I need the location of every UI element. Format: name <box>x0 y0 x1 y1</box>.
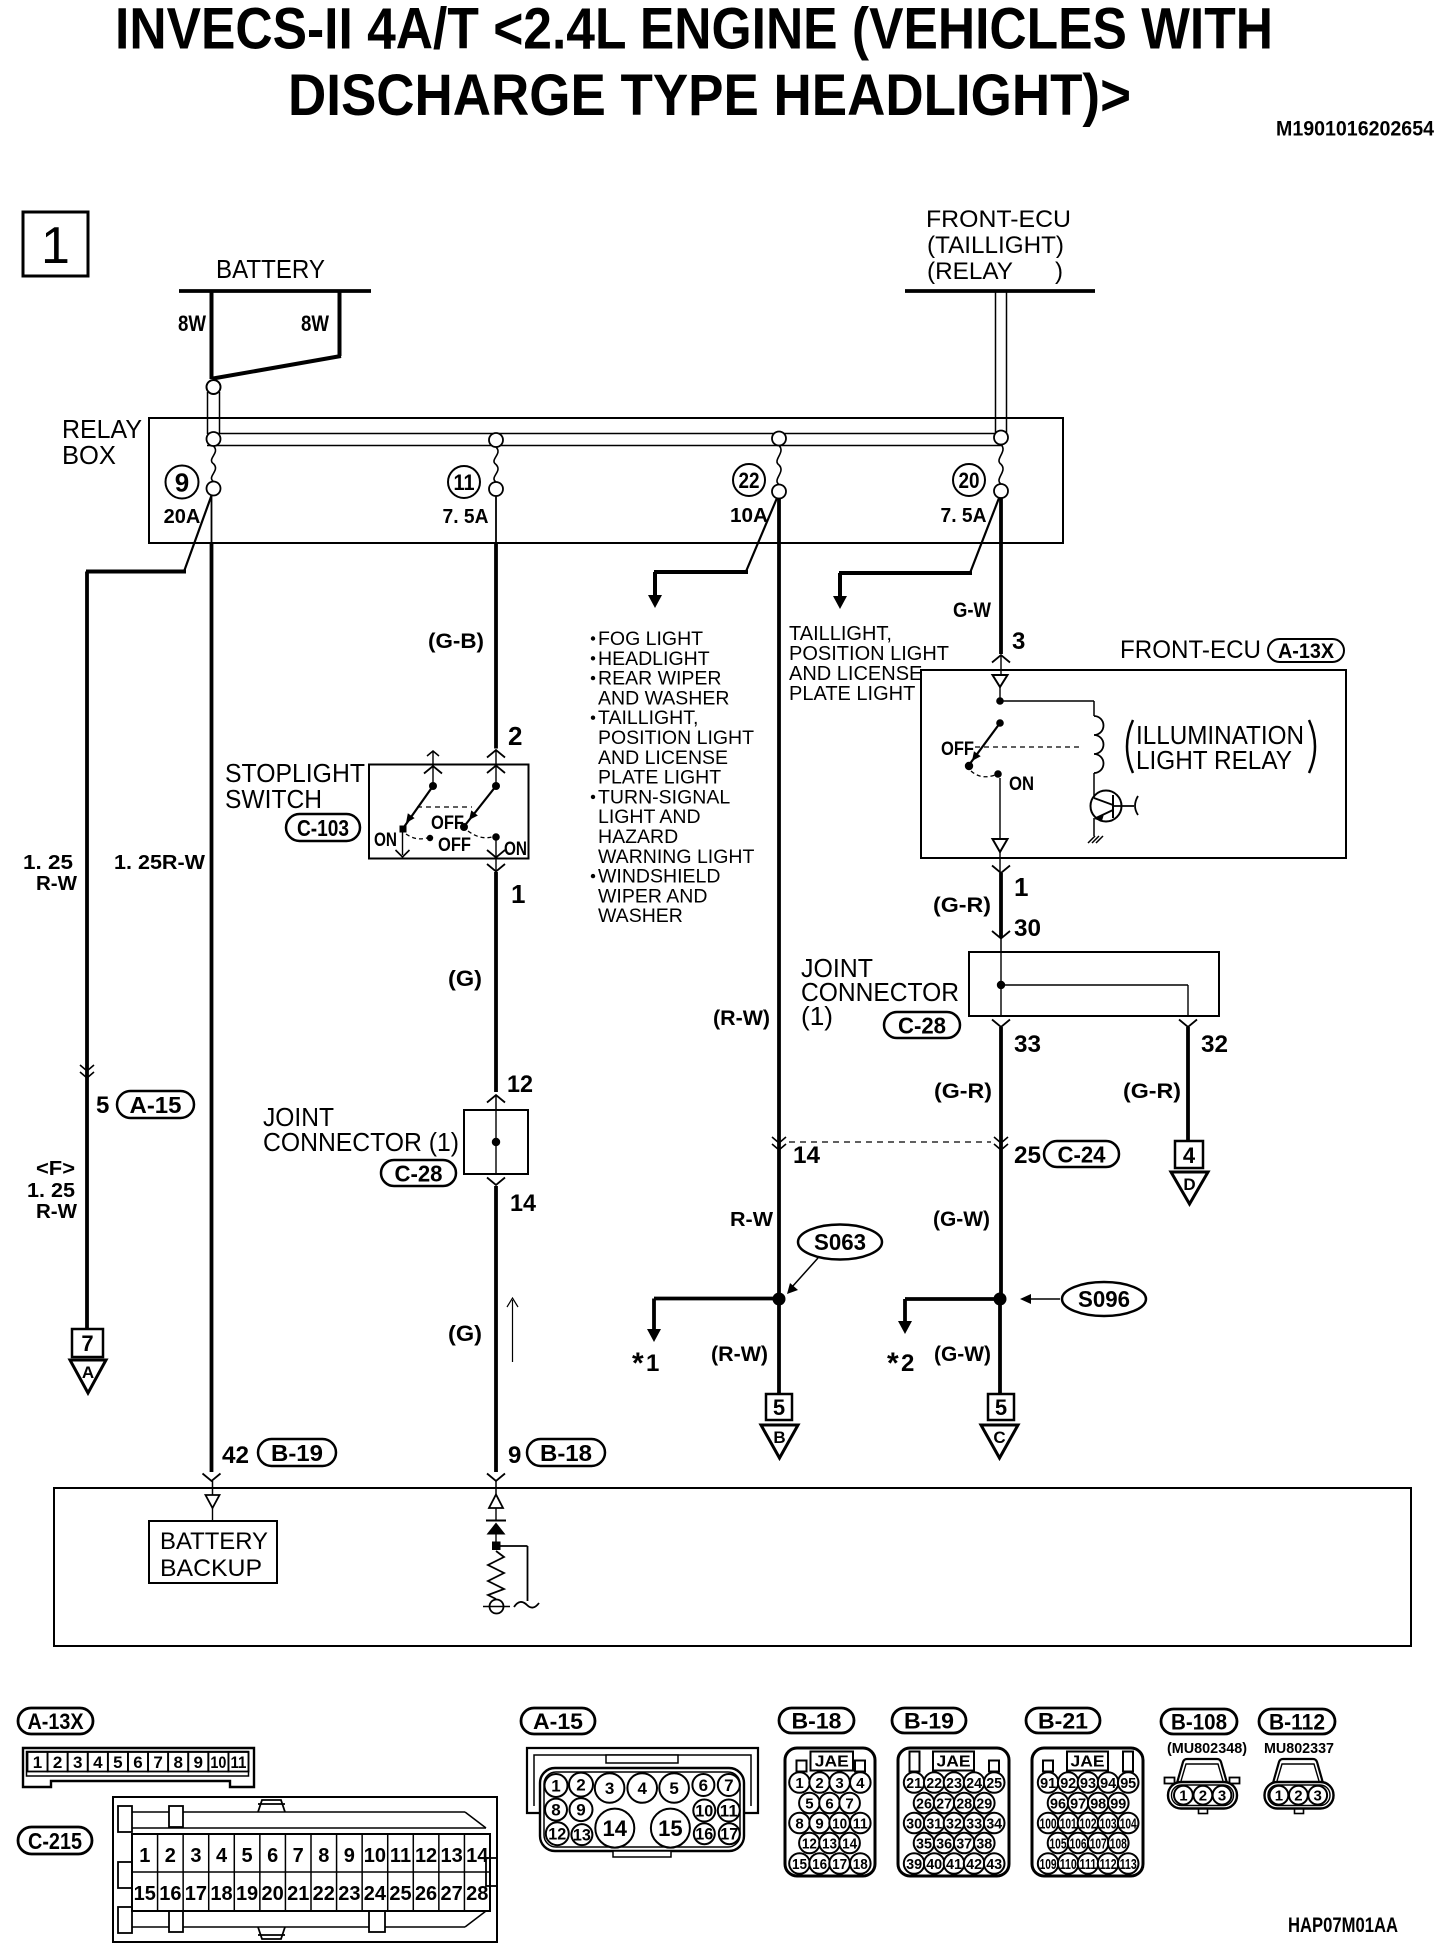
svg-text:9: 9 <box>576 1801 585 1820</box>
svg-text:42: 42 <box>222 1442 249 1469</box>
svg-text:41: 41 <box>946 1856 962 1873</box>
svg-text:8: 8 <box>173 1753 182 1772</box>
svg-text:33: 33 <box>1014 1031 1041 1058</box>
svg-text:14: 14 <box>603 1816 628 1841</box>
svg-text:B-18: B-18 <box>792 1708 842 1733</box>
svg-text:36: 36 <box>936 1835 952 1852</box>
svg-text:1: 1 <box>551 1776 560 1795</box>
svg-text:1: 1 <box>511 879 525 909</box>
svg-text:9: 9 <box>175 467 189 497</box>
svg-text:1: 1 <box>795 1775 803 1792</box>
svg-text:108: 108 <box>1110 1835 1127 1852</box>
svg-text:109: 109 <box>1040 1856 1057 1873</box>
svg-text:REAR WIPER: REAR WIPER <box>598 668 722 690</box>
svg-text:SWITCH: SWITCH <box>225 784 322 814</box>
svg-text:20A: 20A <box>164 506 201 528</box>
svg-text:WINDSHIELD: WINDSHIELD <box>598 866 720 888</box>
svg-text:1: 1 <box>1179 1788 1187 1805</box>
svg-text:40: 40 <box>926 1856 942 1873</box>
svg-text:AND WASHER: AND WASHER <box>598 687 729 709</box>
svg-text:10: 10 <box>364 1845 386 1867</box>
svg-text:29: 29 <box>976 1795 992 1812</box>
svg-text:21: 21 <box>287 1883 309 1905</box>
svg-text:1. 25R-W: 1. 25R-W <box>114 852 205 874</box>
svg-text:33: 33 <box>966 1815 982 1832</box>
svg-text:2: 2 <box>901 1350 914 1377</box>
svg-text:11: 11 <box>720 1801 738 1820</box>
svg-text:A-15: A-15 <box>130 1092 182 1118</box>
svg-text:3: 3 <box>835 1775 843 1792</box>
svg-text:10: 10 <box>695 1801 713 1820</box>
svg-text:FOG LIGHT: FOG LIGHT <box>598 628 703 650</box>
svg-text:8W: 8W <box>178 311 206 336</box>
svg-text:17: 17 <box>832 1856 847 1873</box>
svg-text:11: 11 <box>454 470 475 495</box>
svg-text:B-112: B-112 <box>1269 1709 1325 1734</box>
svg-text:2: 2 <box>1199 1788 1207 1805</box>
svg-text:(G): (G) <box>448 1321 482 1346</box>
svg-text:(G-R): (G-R) <box>934 1080 992 1103</box>
svg-text:TAILLIGHT,: TAILLIGHT, <box>598 707 698 729</box>
svg-text:25: 25 <box>389 1883 411 1905</box>
svg-text:2: 2 <box>1294 1788 1302 1805</box>
svg-text:3: 3 <box>1012 628 1025 655</box>
svg-text:FRONT-ECU: FRONT-ECU <box>1120 636 1261 664</box>
svg-text:20: 20 <box>959 468 980 493</box>
svg-text:(G-R): (G-R) <box>933 894 991 917</box>
svg-text:5: 5 <box>669 1779 678 1798</box>
svg-text:7: 7 <box>845 1795 853 1812</box>
svg-text:19: 19 <box>236 1883 258 1905</box>
svg-text:27: 27 <box>441 1883 463 1905</box>
svg-text:21: 21 <box>906 1775 922 1792</box>
svg-text:(MU802348): (MU802348) <box>1167 1740 1247 1757</box>
svg-text:S063: S063 <box>814 1229 866 1255</box>
svg-text:25: 25 <box>986 1775 1002 1792</box>
svg-text:(TAILLIGHT): (TAILLIGHT) <box>927 232 1064 259</box>
svg-text:MU802337: MU802337 <box>1264 1740 1334 1757</box>
svg-text:PLATE LIGHT: PLATE LIGHT <box>789 683 915 705</box>
svg-text:3: 3 <box>605 1779 614 1798</box>
svg-text:95: 95 <box>1120 1775 1136 1792</box>
svg-text:12: 12 <box>802 1835 817 1852</box>
svg-text:PLATE LIGHT: PLATE LIGHT <box>598 767 721 789</box>
svg-text:BATTERY: BATTERY <box>160 1528 268 1555</box>
svg-text:WIPER AND: WIPER AND <box>598 885 707 907</box>
svg-text:5: 5 <box>113 1753 122 1772</box>
svg-text:C-103: C-103 <box>297 815 349 841</box>
svg-text:7: 7 <box>293 1845 304 1867</box>
svg-text:5: 5 <box>773 1395 785 1420</box>
svg-text:1: 1 <box>1014 872 1028 902</box>
svg-text:99: 99 <box>1110 1795 1126 1812</box>
svg-text:R-W: R-W <box>36 1201 77 1223</box>
svg-text:42: 42 <box>966 1856 982 1873</box>
svg-text:4: 4 <box>856 1775 865 1792</box>
svg-text:7. 5A: 7. 5A <box>443 506 489 528</box>
svg-text:B-18: B-18 <box>540 1440 592 1466</box>
svg-text:28: 28 <box>956 1795 972 1812</box>
svg-text:CONNECTOR (1): CONNECTOR (1) <box>263 1127 459 1157</box>
svg-text:111: 111 <box>1080 1856 1097 1873</box>
svg-text:POSITION LIGHT: POSITION LIGHT <box>789 643 949 665</box>
svg-text:8W: 8W <box>301 311 329 336</box>
svg-text:(G): (G) <box>448 966 482 991</box>
svg-text:6: 6 <box>699 1776 708 1795</box>
svg-text:S096: S096 <box>1078 1286 1130 1312</box>
svg-text:22: 22 <box>313 1883 335 1905</box>
svg-text:1. 25: 1. 25 <box>27 1180 75 1202</box>
svg-text:R-W: R-W <box>36 873 77 895</box>
svg-text:16: 16 <box>159 1883 181 1905</box>
svg-text:13: 13 <box>822 1835 837 1852</box>
svg-text:2: 2 <box>576 1776 585 1795</box>
svg-text:(G-W): (G-W) <box>933 1208 990 1231</box>
svg-text:5: 5 <box>242 1845 253 1867</box>
svg-text:(G-R): (G-R) <box>1123 1080 1181 1103</box>
svg-text:HEADLIGHT: HEADLIGHT <box>598 648 710 670</box>
svg-text:A: A <box>82 1363 94 1382</box>
svg-text:C: C <box>993 1428 1005 1447</box>
svg-text:22: 22 <box>739 468 760 493</box>
svg-text:INVECS-II 4A/T <2.4L ENGINE (V: INVECS-II 4A/T <2.4L ENGINE (VEHICLES WI… <box>115 0 1273 62</box>
svg-text:23: 23 <box>338 1883 360 1905</box>
svg-text:11: 11 <box>853 1815 868 1832</box>
svg-text:6: 6 <box>133 1753 142 1772</box>
svg-text:5: 5 <box>96 1092 109 1119</box>
svg-text:2: 2 <box>815 1775 823 1792</box>
svg-text:ON: ON <box>1009 774 1034 795</box>
svg-text:3: 3 <box>190 1845 201 1867</box>
svg-text:9: 9 <box>815 1815 823 1832</box>
svg-text:AND LICENSE: AND LICENSE <box>789 663 922 685</box>
svg-text:2: 2 <box>165 1845 176 1867</box>
svg-text:14: 14 <box>510 1190 537 1217</box>
svg-text:9: 9 <box>194 1753 203 1772</box>
svg-text:7: 7 <box>81 1331 93 1356</box>
svg-text:15: 15 <box>658 1816 682 1841</box>
svg-text:22: 22 <box>926 1775 942 1792</box>
svg-text:1. 25: 1. 25 <box>23 852 73 874</box>
svg-text:96: 96 <box>1050 1795 1066 1812</box>
svg-text:30: 30 <box>906 1815 922 1832</box>
svg-text:LIGHT AND: LIGHT AND <box>598 806 701 828</box>
svg-text:12: 12 <box>507 1071 533 1098</box>
svg-text:M1901016202654: M1901016202654 <box>1276 118 1434 141</box>
svg-text:6: 6 <box>267 1845 278 1867</box>
svg-text:FRONT-ECU: FRONT-ECU <box>926 206 1071 233</box>
svg-text:105: 105 <box>1050 1835 1067 1852</box>
svg-text:8: 8 <box>318 1845 329 1867</box>
svg-text:9: 9 <box>508 1442 521 1469</box>
svg-text:6: 6 <box>825 1795 833 1812</box>
svg-text:5: 5 <box>805 1795 813 1812</box>
svg-text:39: 39 <box>906 1856 922 1873</box>
svg-text:B-108: B-108 <box>1171 1709 1227 1734</box>
svg-text:3: 3 <box>1218 1788 1226 1805</box>
svg-text:1: 1 <box>646 1350 659 1377</box>
svg-text:27: 27 <box>936 1795 952 1812</box>
svg-text:9: 9 <box>344 1845 355 1867</box>
svg-text:93: 93 <box>1080 1775 1096 1792</box>
svg-text:10A: 10A <box>730 505 768 527</box>
svg-text:25: 25 <box>1014 1142 1041 1169</box>
svg-text:3: 3 <box>1314 1788 1322 1805</box>
svg-text:98: 98 <box>1090 1795 1106 1812</box>
svg-text:104: 104 <box>1120 1815 1137 1832</box>
svg-text:(G-B): (G-B) <box>428 630 484 653</box>
svg-text:16: 16 <box>812 1856 827 1873</box>
svg-text:ON: ON <box>504 839 527 860</box>
svg-text:97: 97 <box>1070 1795 1086 1812</box>
svg-text:10: 10 <box>832 1815 847 1832</box>
svg-text:14: 14 <box>466 1845 489 1867</box>
svg-text:100: 100 <box>1040 1815 1057 1832</box>
svg-text:LIGHT RELAY: LIGHT RELAY <box>1136 745 1292 775</box>
svg-text:C-28: C-28 <box>395 1160 443 1186</box>
svg-text:12: 12 <box>415 1845 437 1867</box>
svg-text:16: 16 <box>695 1825 713 1844</box>
svg-text:38: 38 <box>976 1835 992 1852</box>
svg-text:17: 17 <box>185 1883 207 1905</box>
svg-text:17: 17 <box>720 1825 738 1844</box>
svg-text:TAILLIGHT,: TAILLIGHT, <box>789 623 892 645</box>
svg-text:103: 103 <box>1100 1815 1117 1832</box>
svg-text:1: 1 <box>33 1753 42 1772</box>
svg-text:23: 23 <box>946 1775 962 1792</box>
svg-text:28: 28 <box>466 1883 488 1905</box>
svg-text:1: 1 <box>41 217 70 275</box>
svg-text:32: 32 <box>946 1815 962 1832</box>
svg-text:ON: ON <box>374 830 397 851</box>
svg-text:BOX: BOX <box>62 440 116 470</box>
svg-text:7: 7 <box>724 1776 733 1795</box>
svg-text:BACKUP: BACKUP <box>160 1555 262 1582</box>
svg-text:43: 43 <box>986 1856 1002 1873</box>
svg-text:14: 14 <box>793 1142 821 1169</box>
svg-text:(R-W): (R-W) <box>711 1343 768 1366</box>
svg-text:A-15: A-15 <box>533 1709 583 1734</box>
svg-text:4: 4 <box>216 1845 228 1867</box>
svg-text:110: 110 <box>1060 1856 1077 1873</box>
svg-text:B-21: B-21 <box>1038 1708 1088 1733</box>
svg-text:AND LICENSE: AND LICENSE <box>598 747 728 769</box>
svg-text:A-13X: A-13X <box>1278 640 1334 663</box>
svg-text:WARNING LIGHT: WARNING LIGHT <box>598 846 754 868</box>
svg-text:10: 10 <box>210 1753 226 1772</box>
svg-text:102: 102 <box>1080 1815 1097 1832</box>
svg-text:TURN-SIGNAL: TURN-SIGNAL <box>598 786 730 808</box>
svg-text:11: 11 <box>230 1753 246 1772</box>
svg-text:12: 12 <box>548 1825 566 1844</box>
svg-text:101: 101 <box>1060 1815 1077 1832</box>
svg-text:OFF: OFF <box>431 813 464 834</box>
svg-text:4: 4 <box>637 1779 647 1798</box>
svg-text:JAE: JAE <box>1071 1754 1105 1771</box>
svg-text:POSITION LIGHT: POSITION LIGHT <box>598 727 754 749</box>
svg-text:18: 18 <box>210 1883 232 1905</box>
svg-text:18: 18 <box>853 1856 868 1873</box>
svg-text:7. 5A: 7. 5A <box>941 505 987 527</box>
svg-text:113: 113 <box>1120 1856 1137 1873</box>
svg-text:(G-W): (G-W) <box>934 1343 991 1366</box>
svg-text:WASHER: WASHER <box>598 905 683 927</box>
svg-text:R-W: R-W <box>730 1209 773 1231</box>
svg-text:C-28: C-28 <box>898 1012 946 1038</box>
svg-text:<F>: <F> <box>36 1158 75 1180</box>
svg-text:24: 24 <box>966 1775 983 1792</box>
svg-text:): ) <box>1055 258 1063 285</box>
svg-text:106: 106 <box>1070 1835 1087 1852</box>
svg-text:C-24: C-24 <box>1058 1141 1106 1167</box>
svg-text:3: 3 <box>73 1753 82 1772</box>
svg-text:15: 15 <box>134 1883 156 1905</box>
svg-text:13: 13 <box>441 1845 463 1867</box>
svg-text:(RELAY: (RELAY <box>927 258 1013 285</box>
svg-text:*: * <box>887 1347 899 1380</box>
svg-text:8: 8 <box>795 1815 803 1832</box>
svg-text:20: 20 <box>262 1883 284 1905</box>
svg-text:7: 7 <box>153 1753 162 1772</box>
svg-text:26: 26 <box>415 1883 437 1905</box>
svg-text:32: 32 <box>1201 1031 1228 1058</box>
svg-text:112: 112 <box>1100 1856 1117 1873</box>
svg-text:JAE: JAE <box>815 1754 849 1771</box>
svg-text:(1): (1) <box>801 1001 833 1031</box>
svg-text:37: 37 <box>956 1835 972 1852</box>
svg-text:15: 15 <box>792 1856 807 1873</box>
svg-text:31: 31 <box>926 1815 942 1832</box>
svg-text:92: 92 <box>1060 1775 1076 1792</box>
svg-text:DISCHARGE TYPE HEADLIGHT)>: DISCHARGE TYPE HEADLIGHT)> <box>288 63 1131 128</box>
svg-text:A-13X: A-13X <box>28 1709 84 1734</box>
svg-text:JAE: JAE <box>937 1754 971 1771</box>
svg-text:B: B <box>773 1428 785 1447</box>
svg-text:91: 91 <box>1040 1775 1056 1792</box>
svg-text:1: 1 <box>1275 1788 1283 1805</box>
svg-text:G-W: G-W <box>953 599 991 622</box>
svg-text:34: 34 <box>986 1815 1003 1832</box>
svg-text:B-19: B-19 <box>904 1708 954 1733</box>
svg-text:107: 107 <box>1090 1835 1107 1852</box>
svg-text:24: 24 <box>364 1883 387 1905</box>
svg-text:35: 35 <box>916 1835 932 1852</box>
svg-text:2: 2 <box>53 1753 62 1772</box>
svg-text:HAP07M01AA: HAP07M01AA <box>1288 1914 1398 1937</box>
svg-text:D: D <box>1183 1175 1195 1194</box>
svg-text:BATTERY: BATTERY <box>216 254 325 284</box>
svg-text:2: 2 <box>508 721 522 751</box>
svg-text:11: 11 <box>390 1845 411 1867</box>
svg-text:1: 1 <box>139 1845 150 1867</box>
svg-text:5: 5 <box>995 1395 1007 1420</box>
svg-text:(R-W): (R-W) <box>713 1007 770 1030</box>
svg-text:*: * <box>632 1347 644 1380</box>
svg-text:30: 30 <box>1014 915 1041 942</box>
svg-text:26: 26 <box>916 1795 932 1812</box>
svg-text:B-19: B-19 <box>271 1440 323 1466</box>
svg-text:13: 13 <box>573 1826 591 1845</box>
svg-text:HAZARD: HAZARD <box>598 826 678 848</box>
svg-text:4: 4 <box>1183 1143 1196 1168</box>
svg-text:94: 94 <box>1100 1775 1117 1792</box>
svg-text:OFF: OFF <box>941 739 974 760</box>
svg-text:OFF: OFF <box>438 835 471 856</box>
svg-text:8: 8 <box>551 1801 560 1820</box>
svg-text:4: 4 <box>93 1753 103 1772</box>
svg-text:14: 14 <box>842 1835 858 1852</box>
svg-text:C-215: C-215 <box>28 1828 82 1854</box>
